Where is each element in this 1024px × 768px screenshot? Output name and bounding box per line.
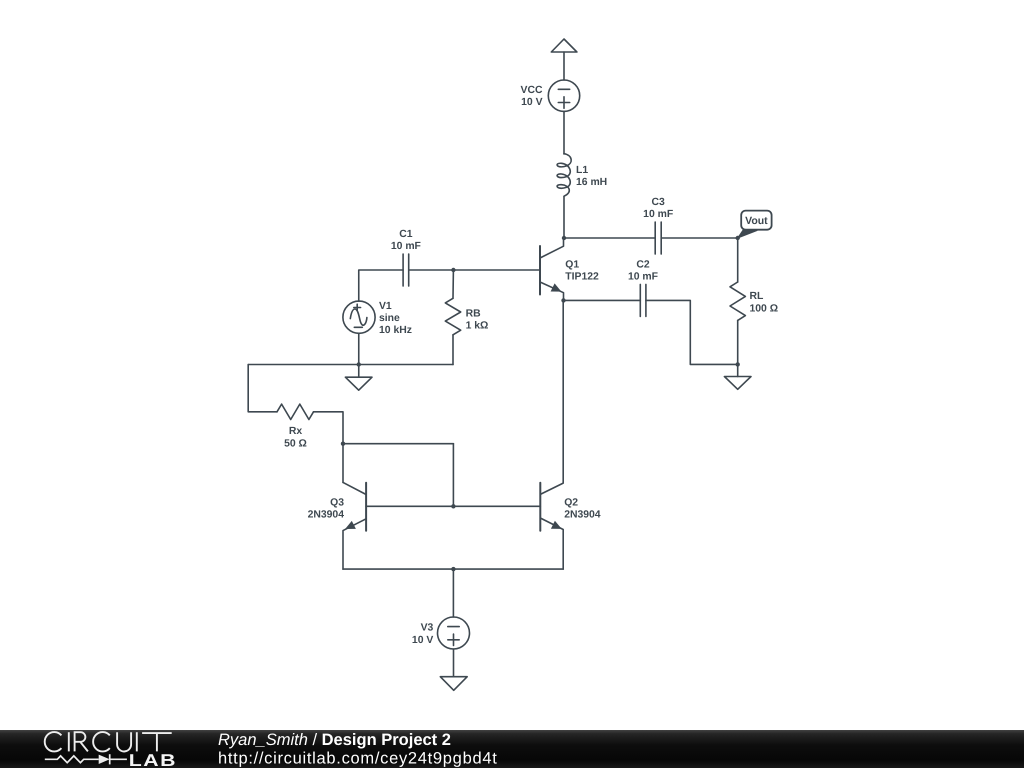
svg-text:2N3904: 2N3904 bbox=[308, 510, 345, 521]
ground (under V1) bbox=[358, 365, 360, 378]
svg-text:16 mH: 16 mH bbox=[576, 177, 607, 188]
wire V3 to ground bbox=[453, 649, 455, 677]
svg-text:2N3904: 2N3904 bbox=[564, 510, 601, 521]
svg-text:10 V: 10 V bbox=[521, 97, 542, 108]
emitter rail junction dot bbox=[451, 567, 455, 571]
transistor Q3 (mirrored) bbox=[365, 483, 367, 531]
svg-text:50 Ω: 50 Ω bbox=[284, 439, 307, 450]
wire node B to RB top bbox=[452, 270, 454, 298]
inductor L1 bbox=[557, 154, 571, 197]
wire V1 bottom to ground rail bbox=[358, 333, 360, 364]
svg-text:http://circuitlab.com/cey24t9p: http://circuitlab.com/cey24t9pgbd4t bbox=[218, 750, 497, 768]
capacitor C3 bbox=[654, 222, 656, 254]
svg-text:TIP122: TIP122 bbox=[565, 272, 599, 283]
svg-text:100 Ω: 100 Ω bbox=[750, 304, 779, 315]
power symbol VCC net (up triangle) bbox=[551, 39, 577, 52]
wire base rail to Q1 bbox=[453, 269, 540, 271]
svg-text:Q2: Q2 bbox=[564, 497, 578, 508]
svg-text:L1: L1 bbox=[576, 165, 588, 176]
node Vout junction dot bbox=[736, 236, 740, 240]
svg-text:Q1: Q1 bbox=[565, 260, 579, 271]
node C junction dot bbox=[341, 442, 345, 446]
wire node C to Q2 base column bbox=[343, 443, 453, 445]
svg-text:10 mF: 10 mF bbox=[628, 272, 658, 283]
wire node C down to Q3 collector bbox=[342, 444, 344, 483]
wire C1 right to node B bbox=[409, 269, 454, 271]
RL ground junction dot bbox=[736, 362, 740, 366]
wire C3 right to Vout node bbox=[661, 237, 738, 239]
node B junction dot bbox=[451, 268, 455, 272]
svg-text:10 mF: 10 mF bbox=[643, 209, 673, 220]
svg-text:C3: C3 bbox=[652, 197, 666, 208]
svg-text:LAB: LAB bbox=[129, 751, 177, 768]
emitter rail Q3-Q2 bbox=[343, 568, 563, 570]
ground (under V3) bbox=[440, 677, 467, 691]
svg-text:C2: C2 bbox=[636, 260, 650, 271]
svg-text:Rx: Rx bbox=[289, 426, 303, 437]
svg-text:Vout: Vout bbox=[745, 215, 768, 227]
wire node A to C3 left bbox=[564, 237, 655, 239]
wire down to base rail node D bbox=[452, 444, 454, 507]
base rail Q3-Q2 bbox=[366, 505, 540, 507]
wire Q1 emitter to C2 left bbox=[564, 299, 641, 301]
logo resistor-diode glyph bbox=[45, 754, 127, 764]
wire Rx to node C bbox=[314, 412, 344, 444]
transistor Q1 bbox=[539, 246, 541, 295]
wire Vout node to RL top bbox=[737, 238, 739, 282]
ground rail wire (V1/RB) bbox=[248, 364, 453, 366]
logo CIRCUIT wordmark bbox=[45, 732, 172, 751]
capacitor C1 bbox=[402, 254, 404, 286]
node D junction dot bbox=[451, 504, 455, 508]
resistor RB bbox=[445, 298, 460, 335]
svg-text:RB: RB bbox=[466, 309, 482, 320]
flag Vout bbox=[738, 229, 757, 238]
wire left drop to Rx bbox=[248, 365, 277, 412]
voltage source V3 bbox=[438, 617, 470, 649]
wire emitter rail to V3 bbox=[452, 569, 454, 617]
svg-text:RL: RL bbox=[750, 291, 765, 302]
svg-text:V1: V1 bbox=[379, 301, 392, 312]
transistor Q2 bbox=[539, 483, 541, 531]
svg-text:10 V: 10 V bbox=[412, 635, 433, 646]
svg-text:10 mF: 10 mF bbox=[391, 241, 421, 252]
svg-text:VCC: VCC bbox=[521, 85, 543, 96]
wire RB bottom to ground rail bbox=[452, 335, 454, 365]
footer bar bbox=[0, 730, 1024, 768]
ground rail junction dot bbox=[357, 362, 361, 366]
svg-text:sine: sine bbox=[379, 313, 400, 324]
svg-text:Ryan_Smith / Design Project 2: Ryan_Smith / Design Project 2 bbox=[218, 731, 451, 749]
resistor Rx bbox=[277, 404, 314, 419]
ground (under RL) bbox=[737, 364, 739, 376]
node A junction dot bbox=[562, 236, 566, 240]
wire RL bottom to ground node bbox=[737, 320, 739, 364]
resistor RL bbox=[730, 282, 745, 320]
wire C2 right to RL ground node bbox=[646, 300, 738, 364]
svg-text:Q3: Q3 bbox=[330, 497, 344, 508]
voltage source VCC bbox=[548, 80, 579, 111]
svg-text:10 kHz: 10 kHz bbox=[379, 325, 412, 336]
wire power to VCC source bbox=[563, 52, 565, 80]
svg-text:C1: C1 bbox=[399, 229, 413, 240]
Q1 emitter junction dot bbox=[561, 298, 565, 302]
svg-text:1 kΩ: 1 kΩ bbox=[466, 321, 489, 332]
wire V1 top to C1 left bbox=[359, 270, 403, 301]
capacitor C2 bbox=[639, 284, 641, 316]
voltage source V1 (sine) bbox=[343, 301, 375, 333]
svg-text:V3: V3 bbox=[421, 623, 434, 634]
wire L1 to collector node bbox=[563, 197, 565, 239]
wire VCC source to L1 bbox=[563, 111, 565, 154]
